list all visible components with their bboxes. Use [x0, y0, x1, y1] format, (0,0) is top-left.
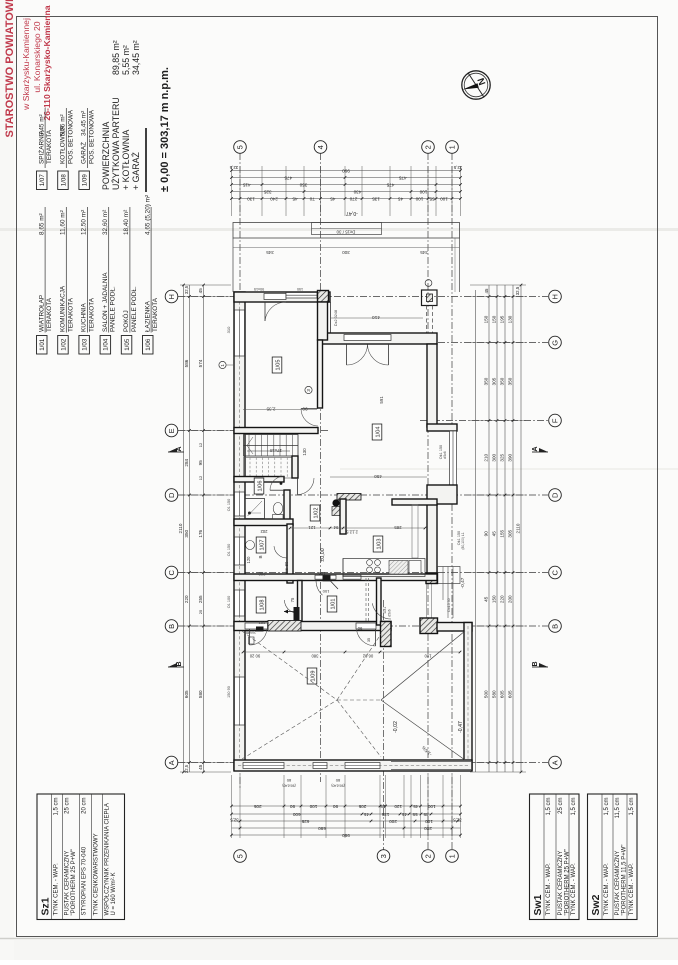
- kitchen side entrance steps: [427, 567, 467, 619]
- svg-text:D: D: [167, 492, 176, 498]
- svg-text:Sw2: Sw2: [590, 894, 602, 915]
- svg-text:45: 45: [292, 196, 298, 201]
- svg-text:200: 200: [389, 819, 397, 824]
- axis line E horizontal: [178, 430, 330, 432]
- svg-text:45: 45: [484, 288, 489, 293]
- interior dim row boiler 1/08: [258, 597, 295, 625]
- wiatrolap east wall: [377, 578, 382, 625]
- svg-text:B: B: [551, 624, 560, 629]
- svg-text:350: 350: [484, 377, 489, 385]
- room label 1/06: [254, 478, 264, 494]
- svg-text:120: 120: [246, 556, 251, 564]
- svg-text:1,5 cm: 1,5 cm: [54, 798, 60, 816]
- svg-text:690: 690: [318, 826, 326, 831]
- pantry washbasin symbol: [246, 541, 255, 550]
- axis circle H left: [165, 290, 178, 303]
- legend entry 1/02: [58, 207, 75, 354]
- svg-text:w Skarżysku-Kamiennej: w Skarżysku-Kamiennej: [21, 18, 31, 111]
- axis circle C left: [165, 566, 178, 579]
- legend entry 1/01: [37, 207, 54, 354]
- svg-text:1,5 cm: 1,5 cm: [546, 798, 552, 816]
- svg-text:Dx15 / 30: Dx15 / 30: [336, 230, 355, 235]
- axis circle G right: [549, 336, 562, 349]
- terrace door into 1/05: [264, 294, 286, 322]
- svg-text:350: 350: [299, 182, 307, 187]
- wiatrolap east pillar: [381, 622, 392, 647]
- svg-text:35: 35: [367, 638, 371, 642]
- svg-text:32,60 m²: 32,60 m²: [102, 210, 109, 235]
- svg-text:-0,02: -0,02: [393, 721, 399, 733]
- svg-text:KOMUNIKACJA: KOMUNIKACJA: [60, 285, 67, 332]
- pillar at B axis east corner: [420, 618, 438, 634]
- svg-text:1/05: 1/05: [275, 360, 281, 371]
- svg-text:25: 25: [198, 609, 203, 614]
- svg-text:H: H: [167, 294, 176, 299]
- terrace slab top: [233, 223, 460, 293]
- legend entry 1/06: [143, 195, 160, 354]
- axis line 4 vertical: [320, 153, 322, 782]
- top wall salon 1/04: [318, 333, 437, 344]
- garage door opening 3: [345, 763, 380, 769]
- window left wall bathroom: [235, 492, 245, 516]
- svg-text:26-110 Skarżysko-Kamienna: 26-110 Skarżysko-Kamienna: [42, 5, 52, 120]
- vent chimney block in wall: [284, 607, 300, 621]
- bay window glass: [450, 431, 457, 485]
- material table Sw1: [530, 794, 580, 920]
- svg-text:45: 45: [402, 812, 408, 817]
- legend entry 1/03: [79, 207, 96, 354]
- axis line C horizontal: [178, 572, 548, 574]
- svg-text:220: 220: [184, 595, 189, 603]
- kitchen stove burners: [367, 560, 381, 573]
- svg-text:2,12.5: 2,12.5: [346, 530, 358, 535]
- legend entry 1/04: [100, 207, 117, 354]
- svg-text:80: 80: [286, 778, 291, 783]
- door wiatrolap to garage: [356, 623, 376, 646]
- svg-text:"POROTHERM 25 P+W": "POROTHERM 25 P+W": [71, 849, 77, 915]
- svg-text:1/04: 1/04: [375, 427, 381, 438]
- axis circle A right: [549, 756, 562, 769]
- axis circle 5 bottom: [234, 850, 247, 863]
- svg-text:1/07: 1/07: [259, 540, 265, 551]
- svg-text:34,45 m²: 34,45 m²: [81, 111, 88, 136]
- svg-text:300: 300: [342, 250, 350, 255]
- interior dim line room 1/05: [243, 407, 317, 412]
- svg-text:3,45 m²: 3,45 m²: [38, 114, 45, 136]
- svg-text:55: 55: [429, 196, 435, 201]
- svg-text:200: 200: [424, 826, 432, 831]
- svg-text:ŁAZIENKA: ŁAZIENKA: [144, 300, 151, 332]
- axis line D horizontal: [178, 494, 548, 496]
- door kitchen wall opening: [343, 575, 361, 579]
- svg-text:32,5: 32,5: [515, 286, 520, 295]
- svg-text:89,85 m²: 89,85 m²: [111, 40, 121, 75]
- insulation dashed line south wall: [238, 765, 470, 767]
- axis circle 3 bottom: [377, 850, 390, 863]
- room label 1/09: [307, 668, 317, 684]
- svg-text:32,5: 32,5: [184, 764, 189, 773]
- chimney lower hatch column: [332, 507, 341, 516]
- door size labels hall: [244, 561, 362, 635]
- legend entry 1/07: [36, 108, 53, 190]
- svg-text:2110: 2110: [178, 523, 183, 533]
- svg-text:11,5 cm: 11,5 cm: [615, 798, 621, 819]
- svg-text:1/09: 1/09: [310, 671, 316, 682]
- axis circle A left: [165, 756, 178, 769]
- svg-text:17x18: 17x18: [269, 448, 282, 453]
- svg-text:150: 150: [492, 595, 497, 603]
- room label 1/05: [272, 357, 282, 373]
- svg-text:390: 390: [508, 453, 513, 461]
- axis line F horizontal: [420, 420, 548, 422]
- interior dim row garage top: [242, 651, 462, 659]
- svg-text:1/08: 1/08: [60, 174, 67, 187]
- svg-text:32,5: 32,5: [229, 165, 238, 170]
- svg-text:PANELE PODŁ.: PANELE PODŁ.: [110, 286, 117, 332]
- svg-text:45: 45: [398, 196, 404, 201]
- window tag texts top wall: [254, 287, 303, 291]
- svg-text:135: 135: [381, 812, 389, 817]
- svg-text:475: 475: [386, 182, 394, 187]
- bay window bottom wall: [427, 485, 457, 504]
- corridor chimney hatched: [337, 494, 361, 501]
- room label 1/01: [327, 596, 337, 612]
- svg-text:WIATROŁAP: WIATROŁAP: [38, 295, 45, 332]
- bathroom 1/06 east wall: [284, 490, 290, 522]
- svg-text:155: 155: [500, 529, 505, 537]
- svg-text:580: 580: [198, 690, 203, 698]
- svg-text:205: 205: [253, 804, 261, 809]
- door to pantry: [274, 546, 287, 558]
- svg-text:5: 5: [236, 854, 245, 858]
- svg-text:A: A: [167, 760, 176, 765]
- svg-text:F: F: [551, 418, 560, 423]
- svg-text:94: 94: [333, 525, 338, 530]
- pantry 1/07 east wall: [287, 524, 293, 583]
- svg-text:UŻYTKOWA PARTERU: UŻYTKOWA PARTERU: [111, 97, 121, 190]
- svg-text:TERAKOTA: TERAKOTA: [89, 297, 96, 332]
- svg-text:176: 176: [198, 529, 203, 537]
- svg-text:POS. BETONOWA: POS. BETONOWA: [67, 109, 74, 164]
- svg-text:(80,100) L1: (80,100) L1: [461, 532, 465, 549]
- window left wall pantry 1/07: [235, 537, 245, 565]
- svg-text:C: C: [551, 570, 560, 576]
- svg-text:45: 45: [364, 812, 370, 817]
- svg-text:183: 183: [318, 571, 326, 576]
- svg-text:A: A: [532, 446, 539, 451]
- pillar at axis 4 porch: [318, 291, 329, 303]
- axis line 3 vertical: [383, 600, 385, 850]
- svg-text:1: 1: [448, 854, 457, 858]
- svg-text:195: 195: [500, 315, 505, 323]
- svg-text:100: 100: [440, 196, 448, 201]
- svg-text:350: 350: [184, 529, 189, 537]
- window left wall boiler 1/08: [235, 590, 245, 616]
- svg-text:120: 120: [394, 804, 402, 809]
- svg-text:205: 205: [285, 568, 289, 574]
- svg-text:SALON + JADALNIA: SALON + JADALNIA: [102, 272, 109, 332]
- svg-text:PUSTAK CERAMICZNY: PUSTAK CERAMICZNY: [65, 851, 71, 916]
- svg-text:8,65 m²: 8,65 m²: [38, 213, 45, 235]
- garage door size labels: [282, 778, 344, 788]
- svg-text:POWIERZCHNIA: POWIERZCHNIA: [101, 121, 111, 190]
- svg-text:90: 90: [290, 804, 296, 809]
- svg-text:305: 305: [508, 529, 513, 537]
- door wiatrolap entrance east: [372, 603, 391, 619]
- kitchen north-east step wall: [392, 499, 437, 505]
- svg-text:150: 150: [492, 315, 497, 323]
- svg-text:2110: 2110: [516, 523, 521, 533]
- bathroom top wall: [234, 477, 284, 483]
- svg-text:TYNK CEM. - WAP.: TYNK CEM. - WAP.: [604, 863, 610, 916]
- svg-text:130: 130: [508, 315, 513, 323]
- svg-text:45: 45: [413, 804, 419, 809]
- window tag texts left wall: [226, 326, 231, 698]
- svg-text:605: 605: [500, 690, 505, 698]
- svg-text:285: 285: [394, 525, 402, 530]
- door to bathroom: [270, 476, 284, 490]
- svg-text:-0,47: -0,47: [346, 210, 358, 216]
- svg-text:Dz1: Dz1: [383, 607, 387, 614]
- svg-text:"POROTHERM 25 P+W": "POROTHERM 25 P+W": [565, 849, 571, 915]
- svg-text:1/05: 1/05: [124, 338, 131, 351]
- svg-text:C: C: [167, 570, 176, 576]
- svg-text:B: B: [167, 624, 176, 629]
- axis line B horizontal: [178, 625, 548, 627]
- svg-text:500: 500: [484, 690, 489, 698]
- svg-text:45: 45: [484, 596, 489, 602]
- svg-text:345: 345: [420, 250, 428, 255]
- svg-text:TYNK CEM. - WAP.: TYNK CEM. - WAP.: [546, 863, 552, 916]
- north arrow: [462, 71, 490, 99]
- svg-text:POS. BETONOWA: POS. BETONOWA: [89, 109, 96, 164]
- axis line H horizontal: [178, 296, 548, 298]
- outer wall right of salon: [427, 344, 437, 427]
- svg-text:220: 220: [500, 595, 505, 603]
- svg-text:TYNK CEM. - WAP.: TYNK CEM. - WAP.: [54, 863, 60, 916]
- svg-text:5: 5: [236, 145, 245, 149]
- kitchen east wall: [427, 504, 437, 573]
- door boiler to garage: [245, 623, 268, 645]
- shower cabin: [245, 499, 265, 519]
- material table Sw2: [588, 794, 638, 920]
- svg-text:12: 12: [198, 475, 203, 480]
- svg-text:A: A: [551, 760, 560, 765]
- insulation dashed line left wall: [239, 296, 241, 766]
- kitchen tall cupboard line: [412, 505, 418, 558]
- svg-text:586: 586: [184, 359, 189, 367]
- svg-text:+ KOTŁOWNIA: + KOTŁOWNIA: [121, 130, 131, 190]
- svg-text:45: 45: [198, 764, 203, 770]
- terrace inner dim line: [233, 248, 460, 256]
- room label 1/07: [256, 537, 266, 553]
- room label 1/04: [372, 424, 382, 440]
- svg-text:1/08: 1/08: [259, 600, 265, 611]
- door stair hall to corridor: [298, 478, 315, 495]
- svg-text:415: 415: [242, 182, 250, 187]
- svg-text:(90x140): (90x140): [282, 784, 295, 788]
- bottom dimension chains: [230, 775, 462, 838]
- svg-text:1/06: 1/06: [145, 338, 152, 351]
- window left wall room 1/05: [235, 310, 245, 356]
- svg-text:± 0,00 = 303,17 m n.p.m.: ± 0,00 = 303,17 m n.p.m.: [159, 67, 171, 192]
- axis circle E left: [165, 424, 178, 437]
- svg-text:100: 100: [309, 804, 317, 809]
- dashed overhang line at entrance: [366, 578, 369, 623]
- interior dim row pantry 1/07: [246, 556, 266, 577]
- svg-text:4,65 (5,20) m²: 4,65 (5,20) m²: [144, 195, 151, 235]
- svg-text:2,35: 2,35: [266, 407, 275, 412]
- svg-text:d5x6: d5x6: [443, 451, 447, 458]
- svg-text:TYNK CEM. - WAP.: TYNK CEM. - WAP.: [571, 863, 577, 916]
- svg-text:305: 305: [492, 377, 497, 385]
- svg-text:1/06: 1/06: [257, 481, 263, 492]
- svg-text:475: 475: [284, 175, 292, 180]
- east wall link to garage corner: [437, 623, 472, 632]
- axis circle 1 top: [446, 141, 459, 154]
- svg-text:2: 2: [424, 854, 433, 858]
- svg-text:150: 150: [297, 287, 303, 291]
- svg-text:990: 990: [342, 168, 350, 173]
- bathroom bottom wall / pantry top: [234, 519, 293, 526]
- svg-text:90 20: 90 20: [249, 654, 260, 659]
- garage door opening 1: [243, 763, 284, 769]
- axis circle B right: [549, 620, 562, 633]
- axis circle F right: [549, 414, 562, 427]
- svg-text:12: 12: [198, 442, 203, 447]
- svg-text:90: 90: [333, 804, 339, 809]
- svg-text:ul. Konarskiego 20: ul. Konarskiego 20: [32, 21, 42, 92]
- kitchen sink: [389, 561, 421, 575]
- axis circle H right: [549, 290, 562, 303]
- svg-text:4: 4: [316, 145, 325, 149]
- section mark B left: [168, 661, 184, 667]
- boiler room 1/08 east wall: [298, 581, 303, 624]
- svg-text:STAROSTWO POWIATOWE: STAROSTWO POWIATOWE: [4, 0, 16, 138]
- svg-text:2: 2: [424, 145, 433, 149]
- svg-text:25 cm: 25 cm: [558, 798, 564, 814]
- svg-text:11,60 m²: 11,60 m²: [60, 210, 67, 235]
- wall stub stair hall east: [292, 456, 298, 478]
- svg-text:605: 605: [508, 690, 513, 698]
- insulation dashed line garage east wall: [467, 626, 469, 766]
- svg-text:55: 55: [412, 812, 418, 817]
- kitchen counter: [343, 559, 425, 578]
- svg-text:B: B: [176, 661, 183, 666]
- window in top wall 1/05: [286, 293, 317, 299]
- door salon into 1/05 lower: [301, 409, 318, 427]
- room label 1/08: [256, 597, 266, 613]
- svg-text:430: 430: [353, 189, 361, 194]
- svg-text:45: 45: [423, 812, 429, 817]
- salon terrace french door: [344, 335, 391, 366]
- svg-text:32,5: 32,5: [453, 818, 462, 823]
- svg-text:205: 205: [250, 630, 256, 634]
- svg-text:B: B: [532, 661, 539, 666]
- svg-text:GARAŻ: GARAŻ: [79, 142, 88, 164]
- staircase lower flight dashed: [244, 458, 293, 479]
- svg-text:+ GARAŻ: + GARAŻ: [131, 151, 141, 190]
- garage top wall: [234, 622, 391, 631]
- section mark B right: [532, 661, 548, 667]
- salon interior dim 450: [330, 474, 427, 479]
- svg-text:5,55 m²: 5,55 m²: [121, 45, 131, 75]
- svg-text:210: 210: [484, 453, 489, 461]
- svg-text:34,45 m²: 34,45 m²: [131, 40, 141, 75]
- svg-text:TERAKOTA: TERAKOTA: [46, 297, 53, 332]
- dim row hall y583: [256, 537, 326, 576]
- scan fold line: [0, 228, 678, 231]
- axis line 5 vertical: [239, 153, 241, 790]
- section mark A right: [532, 446, 548, 452]
- axis line 2 vertical: [427, 153, 429, 850]
- svg-text:45: 45: [492, 531, 497, 537]
- svg-text:U = 160 W/m²·K: U = 160 W/m²·K: [111, 872, 117, 915]
- outer wall left: [234, 292, 245, 770]
- axis circle 1 bottom: [446, 850, 459, 863]
- door corridor to wiatrolap: [315, 575, 338, 595]
- garage south wall: [234, 760, 472, 771]
- svg-text:±0,00: ±0,00: [320, 548, 326, 561]
- terrace edge bottom right: [391, 762, 472, 770]
- svg-text:580: 580: [492, 690, 497, 698]
- svg-text:150 90: 150 90: [227, 686, 231, 698]
- svg-text:1/04: 1/04: [103, 338, 110, 351]
- svg-text:284: 284: [184, 458, 189, 466]
- axis line A horizontal: [178, 762, 548, 764]
- interior wall 1/05 vs salon vertical: [318, 302, 328, 340]
- svg-text:H: H: [551, 294, 560, 299]
- svg-text:1,5 cm: 1,5 cm: [571, 798, 577, 816]
- svg-text:240: 240: [270, 196, 278, 201]
- material table Sz1: [37, 794, 125, 920]
- svg-text:Dx15 30: Dx15 30: [447, 598, 451, 611]
- window tag bay: [439, 445, 447, 459]
- legend entry 1/08: [58, 108, 75, 190]
- svg-text:1/03: 1/03: [82, 338, 89, 351]
- staircase: [244, 435, 299, 457]
- left dimension chains: [178, 284, 231, 774]
- axis circle D left: [165, 489, 178, 502]
- svg-text:Sz1: Sz1: [40, 897, 52, 915]
- svg-text:POKÓJ: POKÓJ: [121, 310, 130, 332]
- svg-text:325: 325: [263, 189, 271, 194]
- svg-text:Dz2 0248: Dz2 0248: [334, 310, 338, 326]
- svg-text:350: 350: [500, 377, 505, 385]
- svg-text:1/09: 1/09: [82, 174, 89, 187]
- svg-text:1/02: 1/02: [313, 508, 319, 519]
- room label 1/03: [373, 536, 383, 552]
- svg-text:450: 450: [374, 474, 382, 479]
- svg-text:270: 270: [349, 196, 357, 201]
- svg-text:45: 45: [198, 288, 203, 294]
- svg-text:100: 100: [322, 589, 329, 594]
- svg-text:90: 90: [357, 626, 362, 631]
- svg-text:STYROPIAN EPS 70-040: STYROPIAN EPS 70-040: [82, 846, 88, 915]
- svg-text:100: 100: [425, 819, 433, 824]
- axis circle 5 top: [234, 141, 247, 154]
- svg-text:12,50 m²: 12,50 m²: [81, 210, 88, 235]
- svg-text:O1 150: O1 150: [227, 499, 231, 511]
- svg-text:80: 80: [244, 630, 249, 635]
- svg-text:45: 45: [330, 196, 336, 201]
- svg-text:E: E: [167, 428, 176, 433]
- garage east wall: [464, 623, 472, 771]
- svg-text:Sw1: Sw1: [532, 894, 544, 915]
- svg-text:B: B: [258, 555, 263, 558]
- svg-text:300: 300: [492, 453, 497, 461]
- svg-text:TERAKOTA: TERAKOTA: [46, 129, 53, 164]
